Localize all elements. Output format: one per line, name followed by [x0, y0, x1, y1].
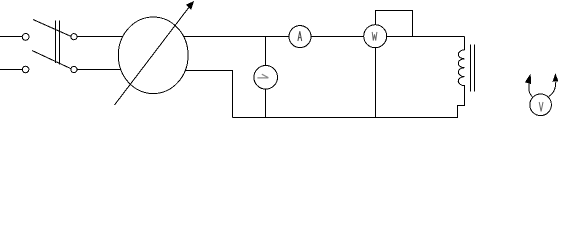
meter PV1 bottom lead — [265, 89, 267, 117]
switch blade S1 top pole — [33, 20, 71, 37]
gang link of double-pole switch — [55, 21, 57, 64]
wire top-left supply — [0, 36, 22, 38]
switch blade S1 bottom pole — [32, 51, 71, 69]
ammeter A circle — [289, 26, 311, 48]
meter PV1 circle — [254, 66, 278, 90]
wire ammeter to wattmeter — [311, 36, 364, 38]
wire variac to ammeter — [184, 36, 289, 38]
contact top-right of switch — [71, 34, 77, 40]
meter PV1 symbol — [257, 74, 268, 78]
wattmeter W label — [372, 32, 377, 41]
variac T1 body — [118, 17, 188, 94]
wire variac bottom to bus corner — [185, 71, 232, 118]
ammeter A label — [298, 31, 302, 41]
voltmeter branch lead top — [265, 37, 267, 66]
wire switch to variac top — [77, 36, 122, 38]
transformer primary winding L1 — [458, 50, 464, 92]
transformer primary top lead — [464, 37, 466, 50]
wattmeter bottom lead to bus — [375, 48, 377, 118]
wire switch to variac bottom — [77, 69, 121, 71]
bottom bus wire — [233, 92, 465, 118]
wattmeter voltage-coil loop — [376, 11, 413, 37]
contact bottom-right of switch — [71, 66, 77, 72]
transformer core — [470, 45, 472, 92]
wattmeter W circle — [364, 25, 387, 48]
voltmeter right probe — [549, 82, 556, 96]
wire wattmeter to transformer — [387, 36, 465, 38]
portable voltmeter V body — [530, 94, 552, 116]
terminal bottom-left — [22, 66, 29, 73]
variac adjustment arrow — [115, 7, 190, 105]
voltmeter left probe — [529, 84, 532, 97]
terminal top-left — [22, 34, 29, 41]
wire bottom-left supply — [0, 69, 22, 71]
voltmeter V label — [539, 102, 543, 111]
